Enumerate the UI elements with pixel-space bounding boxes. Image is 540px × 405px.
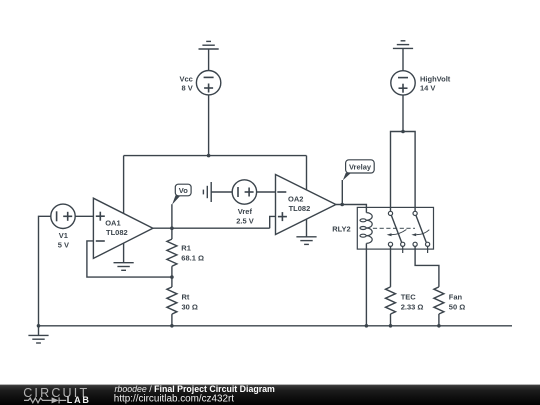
wire Vref to OA2 -: [257, 191, 276, 193]
svg-text:TL082: TL082: [106, 228, 128, 237]
svg-text:TEC: TEC: [401, 293, 417, 302]
svg-text:Vref: Vref: [238, 207, 253, 216]
svg-text:5 V: 5 V: [58, 241, 69, 250]
ground G5 (left of Vref, rotated): [203, 182, 232, 202]
voltage source Vref: [232, 180, 256, 204]
junction node Vo: [170, 226, 174, 230]
relay switch 1: [387, 211, 407, 246]
wire Vrelay flag to node: [341, 180, 343, 205]
resistor Fan: [434, 287, 444, 326]
svg-text:Vrelay: Vrelay: [349, 162, 372, 171]
svg-text:2.33 Ω: 2.33 Ω: [401, 303, 424, 312]
op-amp OA2: [276, 175, 336, 235]
label OA2 TL082: [288, 195, 310, 214]
relay coil: [360, 213, 372, 244]
svg-text:8 V: 8 V: [182, 84, 193, 93]
label OA1 TL082: [105, 218, 127, 237]
wire V1 to OA1 +: [75, 215, 93, 217]
svg-text:Vo: Vo: [179, 186, 188, 195]
junction rail/Vcc: [207, 154, 211, 158]
label Vref 2.5 V: [236, 207, 254, 225]
junction TEC/bus: [389, 324, 393, 328]
label Vcc 8 V: [179, 74, 192, 92]
svg-text:OA2: OA2: [288, 195, 303, 204]
ground G3 (bottom left): [28, 326, 48, 343]
relay stub pin NC2: [427, 246, 429, 253]
svg-text:68.1 Ω: 68.1 Ω: [181, 253, 204, 262]
svg-text:Vcc: Vcc: [179, 74, 192, 83]
wire relay top tee: [391, 132, 416, 212]
resistor Rt: [167, 277, 177, 326]
wire HighVolt down: [402, 95, 404, 131]
relay stub pin NC1: [402, 246, 404, 253]
label Rt 30 Ω: [182, 293, 198, 312]
label HighVolt 14 V: [420, 74, 451, 92]
voltage source HighVolt: [391, 71, 415, 95]
logo resistor squiggle: [24, 397, 66, 403]
wire elbow to OA2 +: [270, 216, 276, 228]
wire OA2 output to relay coil: [336, 205, 367, 213]
flag Vrelay: [343, 160, 374, 181]
ground G1 (above Vcc, inverted): [199, 41, 219, 70]
resistor TEC: [386, 287, 396, 326]
junction bus/left: [37, 324, 41, 328]
wire switch1 to TEC: [390, 246, 392, 287]
svg-text:30 Ω: 30 Ω: [182, 302, 198, 311]
resistor R1: [167, 228, 177, 277]
svg-text:http://circuitlab.com/cz432rt: http://circuitlab.com/cz432rt: [114, 394, 234, 405]
wire Vo flag to node: [171, 204, 173, 228]
flag Vo: [172, 184, 191, 205]
svg-text:HighVolt: HighVolt: [420, 74, 451, 83]
svg-text:V1: V1: [59, 231, 68, 240]
svg-text:RLY2: RLY2: [332, 225, 350, 234]
junction R1/Rt/feedback: [170, 275, 174, 279]
wire OA1 power pin: [123, 156, 125, 214]
wire V1 left to ground bus: [39, 216, 51, 325]
ground G4 (below OA1): [114, 243, 134, 270]
wire OA1 output: [153, 227, 270, 229]
wire OA2 power pin: [306, 156, 308, 191]
voltage source Vcc: [196, 71, 220, 95]
label R1 68.1 Ω: [181, 244, 204, 263]
relay RLY2 box: [357, 207, 433, 249]
wire ground bus: [39, 325, 513, 327]
relay switch 2: [411, 211, 429, 246]
svg-text:LAB: LAB: [67, 395, 91, 405]
junction coil/bus: [365, 324, 369, 328]
wire Vcc to V+ rail: [208, 95, 210, 156]
ground G2 (above HighVolt, inverted): [393, 41, 413, 71]
junction Vrelay node: [340, 203, 344, 207]
svg-text:OA1: OA1: [105, 218, 120, 227]
svg-text:14 V: 14 V: [420, 84, 435, 93]
svg-text:R1: R1: [181, 244, 191, 253]
label V1 5 V: [58, 231, 69, 249]
svg-text:Fan: Fan: [449, 293, 463, 302]
wire OA1 feedback: [87, 241, 172, 277]
ground G6 (below OA2): [296, 219, 316, 244]
svg-text:50 Ω: 50 Ω: [449, 303, 465, 312]
op-amp OA1: [93, 198, 152, 258]
wire switch2 to Fan: [415, 246, 439, 287]
label TEC 2.33 Ω: [401, 293, 424, 312]
svg-text:Rt: Rt: [182, 293, 190, 302]
junction Rt/bus: [170, 324, 174, 328]
svg-text:2.5 V: 2.5 V: [236, 216, 254, 225]
wire V+ rail: [124, 155, 307, 157]
junction Fan/bus: [437, 324, 441, 328]
svg-text:TL082: TL082: [289, 204, 311, 213]
wire coil to ground bus: [365, 243, 367, 325]
junction HighVolt/tee: [401, 130, 405, 134]
relay dashed actuation line: [373, 227, 415, 229]
voltage source V1: [51, 204, 75, 228]
label Fan 50 Ω: [449, 293, 465, 312]
